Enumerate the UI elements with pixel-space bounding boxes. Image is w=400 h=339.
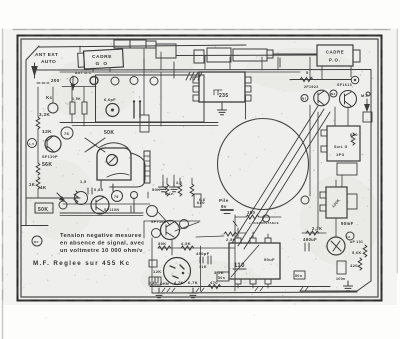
svg-text:AUTO: AUTO xyxy=(41,59,56,65)
svg-text:3,3: 3,3 xyxy=(176,181,182,185)
svg-text:9v: 9v xyxy=(221,204,227,209)
svg-text:AnT D.C: AnT D.C xyxy=(75,71,92,75)
svg-text:M.F. Reglee sur 455 Kc: M.F. Reglee sur 455 Kc xyxy=(33,260,131,267)
svg-text:150: 150 xyxy=(247,210,255,215)
svg-text:11K: 11K xyxy=(199,265,207,269)
svg-text:490pF: 490pF xyxy=(196,251,210,256)
svg-text:2,5K: 2,5K xyxy=(226,237,236,242)
svg-text:1,5: 1,5 xyxy=(80,180,86,184)
svg-text:110: 110 xyxy=(234,263,245,269)
svg-text:+ THERMISTANCE: + THERMISTANCE xyxy=(249,221,279,225)
svg-text:5,6K: 5,6K xyxy=(352,251,362,255)
svg-text:4K: 4K xyxy=(40,185,47,190)
svg-text:M.P: M.P xyxy=(361,94,369,98)
svg-text:2,2K: 2,2K xyxy=(312,226,322,231)
svg-text:Pile: Pile xyxy=(219,198,229,203)
svg-text:12K: 12K xyxy=(153,269,162,274)
svg-text:SFT108: SFT108 xyxy=(151,220,166,224)
svg-text:Tension negative mesuree: Tension negative mesuree xyxy=(60,233,142,239)
svg-text:420: 420 xyxy=(350,263,358,268)
svg-text:5: 5 xyxy=(306,70,309,75)
svg-text:SF110P: SF110P xyxy=(42,155,58,159)
svg-text:en absence de signal, avec: en absence de signal, avec xyxy=(60,241,145,247)
svg-text:650: 650 xyxy=(350,132,358,137)
svg-text:RF: RF xyxy=(34,240,39,244)
svg-text:470: 470 xyxy=(210,280,218,285)
svg-text:100n: 100n xyxy=(336,277,346,281)
svg-text:12K: 12K xyxy=(42,129,52,135)
svg-text:1,5: 1,5 xyxy=(29,142,34,146)
svg-text:SorL G: SorL G xyxy=(334,145,348,149)
svg-text:90uF: 90uF xyxy=(264,257,275,262)
svg-text:200: 200 xyxy=(51,78,60,83)
svg-text:4,7K: 4,7K xyxy=(174,281,184,285)
svg-text:N2: N2 xyxy=(331,92,336,96)
svg-text:CADRE: CADRE xyxy=(326,50,345,55)
svg-text:2F1922: 2F1922 xyxy=(304,85,319,89)
svg-text:50K: 50K xyxy=(38,207,48,213)
svg-text:SF110N: SF110N xyxy=(104,208,119,212)
svg-text:4,5K: 4,5K xyxy=(181,241,191,246)
svg-text:8,1n: 8,1n xyxy=(165,192,174,196)
svg-text:uP 101: uP 101 xyxy=(350,240,363,244)
svg-text:56K: 56K xyxy=(42,162,52,168)
svg-text:SF1613: SF1613 xyxy=(337,83,352,87)
svg-text:0,4n: 0,4n xyxy=(149,281,157,285)
svg-text:un voltmetre 10 000 ohm/v: un voltmetre 10 000 ohm/v xyxy=(60,248,143,254)
svg-text:CADRE: CADRE xyxy=(92,54,112,60)
svg-text:3,5K: 3,5K xyxy=(214,270,224,275)
svg-text:Kc: Kc xyxy=(46,95,53,100)
svg-text:1A: 1A xyxy=(346,235,351,239)
svg-text:ANT EXT: ANT EXT xyxy=(35,52,58,58)
svg-text:50K: 50K xyxy=(158,241,167,246)
svg-text:0,85: 0,85 xyxy=(94,187,104,192)
svg-text:G O: G O xyxy=(96,61,109,67)
svg-text:76: 76 xyxy=(64,131,70,136)
svg-text:1K: 1K xyxy=(29,182,35,187)
svg-text:N1: N1 xyxy=(302,97,307,101)
svg-text:P.O.: P.O. xyxy=(329,58,341,63)
svg-text:50n: 50n xyxy=(218,276,225,280)
svg-text:50K: 50K xyxy=(104,130,114,136)
svg-text:6,6pF: 6,6pF xyxy=(104,98,116,102)
svg-text:50n: 50n xyxy=(295,274,302,278)
svg-text:76: 76 xyxy=(114,195,119,199)
svg-text:50K: 50K xyxy=(152,187,161,192)
svg-text:3,3K: 3,3K xyxy=(39,112,50,117)
svg-text:1,5K: 1,5K xyxy=(72,97,81,101)
svg-text:235: 235 xyxy=(219,93,229,99)
svg-text:1P3: 1P3 xyxy=(336,152,345,157)
